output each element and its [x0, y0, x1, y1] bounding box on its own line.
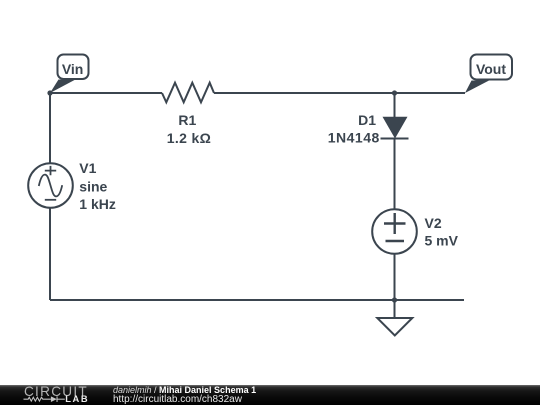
- voltage source V1 (sine) body: [28, 163, 73, 208]
- wire diode cathode to V2 plus terminal: [394, 139, 396, 210]
- svg-text:sine: sine: [79, 178, 107, 194]
- diode D1 triangle: [383, 117, 408, 139]
- node junction dot ground rail: [392, 297, 397, 302]
- net label Vin box: [58, 55, 89, 80]
- svg-text:1.2 kΩ: 1.2 kΩ: [167, 130, 211, 146]
- V1 sine squiggle: [39, 175, 62, 197]
- V1 plus sign: [45, 166, 56, 175]
- ground stem wire: [394, 300, 396, 318]
- svg-text:1 kHz: 1 kHz: [79, 196, 116, 212]
- net label Vout flag tail: [465, 81, 489, 94]
- node junction dot Vout rail / diode anode: [392, 90, 397, 95]
- resistor R1 zigzag: [162, 83, 214, 103]
- diode D1 cathode bar: [381, 138, 409, 140]
- svg-text:Vin: Vin: [62, 61, 84, 77]
- ground symbol triangle: [377, 318, 412, 336]
- svg-text:D1: D1: [358, 112, 376, 128]
- wire left vertical lower (V1 minus terminal to bottom rail): [49, 208, 51, 301]
- logo schematic squiggle: wire + resistor + diode: [23, 396, 64, 402]
- voltage source V2 (DC) body: [372, 209, 417, 254]
- svg-text:Vout: Vout: [476, 61, 506, 77]
- wire bottom rail: [50, 299, 464, 301]
- svg-text:R1: R1: [178, 112, 196, 128]
- svg-text:V2: V2: [425, 215, 442, 231]
- wire left vertical upper (Vin node to V1 plus terminal): [49, 93, 51, 164]
- net label Vin flag tail: [50, 80, 75, 94]
- footer bar: [0, 385, 540, 405]
- svg-text:V1: V1: [79, 160, 96, 176]
- wire V2 minus terminal to bottom rail: [394, 254, 396, 301]
- V2 minus sign: [386, 240, 405, 242]
- svg-text:5 mV: 5 mV: [425, 232, 459, 248]
- CircuitLab logo: [23, 385, 93, 405]
- node junction dot Vin: [47, 90, 52, 95]
- svg-text:LAB: LAB: [65, 394, 89, 404]
- wire top left (Vin node to R1): [50, 92, 162, 94]
- net label Vout box: [471, 55, 513, 80]
- V1 minus sign: [45, 199, 56, 201]
- wire diode anode (top node to D1): [394, 93, 396, 117]
- V2 plus sign: [384, 213, 406, 234]
- svg-text:1N4148: 1N4148: [328, 130, 380, 146]
- wire top right (R1 to Vout): [214, 92, 465, 94]
- credit text: [113, 385, 256, 405]
